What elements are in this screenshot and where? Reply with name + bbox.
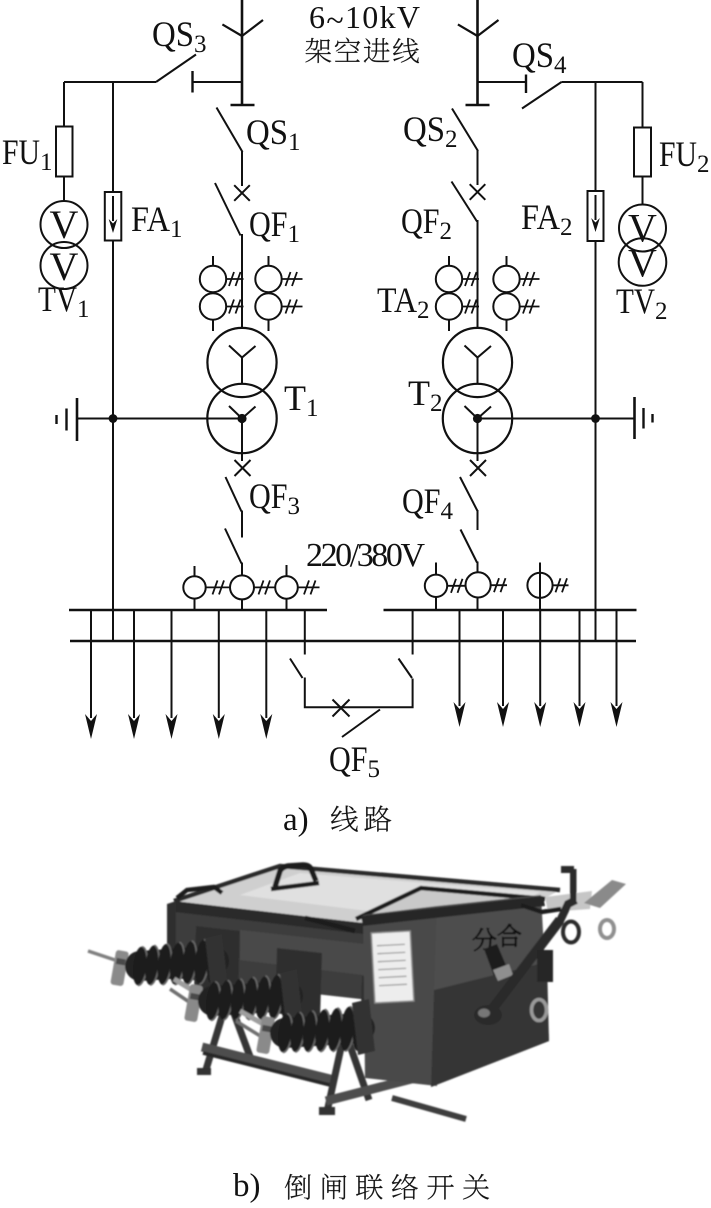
current transformers: LV side left group bbox=[183, 565, 319, 610]
busbar: 380V bus section II bbox=[384, 609, 637, 612]
node: T1 neutral junction dot bbox=[237, 414, 246, 423]
photo: control box bbox=[356, 888, 545, 928]
surge arrester FA2 bbox=[595, 82, 597, 641]
ground (right) bbox=[633, 397, 636, 439]
wire: QS2 to QF2 bbox=[477, 150, 479, 185]
svg-text:b): b) bbox=[233, 1168, 261, 1204]
svg-text:6~10kV: 6~10kV bbox=[309, 0, 420, 38]
current transformers: LV side right group bbox=[425, 563, 569, 611]
wire: T1 neutral to ground bbox=[77, 418, 242, 420]
surge arrester FA1 bbox=[112, 82, 114, 641]
photo: insulator bushings bbox=[88, 934, 375, 1055]
feeder arrow L5 bbox=[265, 610, 267, 718]
feeder arrow R2 bbox=[502, 610, 504, 706]
svg-text:V: V bbox=[50, 202, 79, 247]
feeder arrow R4 bbox=[579, 610, 581, 706]
label 架空进线 bbox=[305, 38, 331, 63]
disconnector QS2 bbox=[466, 104, 490, 106]
ground (left) bbox=[76, 398, 79, 441]
disconnector QS4 bbox=[478, 81, 527, 83]
transformer T2 (wye-wye) bbox=[443, 328, 512, 397]
photo: 合/分 indicator bbox=[473, 928, 496, 951]
photo: crank handle bbox=[490, 920, 560, 1012]
voltage transformer TV1 bbox=[41, 201, 88, 248]
tie breaker QF5 bbox=[290, 610, 413, 737]
svg-text:a): a) bbox=[283, 802, 309, 838]
feeder arrow L2 bbox=[133, 610, 135, 718]
feeder arrow L4 bbox=[218, 610, 220, 718]
node: T2 neutral junction dot bbox=[473, 414, 482, 423]
circuit breaker QF1 bbox=[234, 185, 250, 201]
wire: left incoming overhead line bbox=[241, 0, 244, 105]
wire: QF1 to transformer T1 bbox=[241, 234, 243, 329]
circuit breaker QF3 bbox=[235, 460, 251, 476]
feeder arrow L3 bbox=[171, 610, 173, 718]
feeder arrow R3 bbox=[539, 610, 541, 706]
feeder arrow R3 (through LV CT) bbox=[539, 563, 541, 611]
circuit breaker QF2 bbox=[470, 184, 486, 200]
node: junction dot on FA1 line bbox=[109, 414, 118, 423]
feeder arrow L1 bbox=[90, 610, 92, 718]
wire: right incoming overhead line bbox=[476, 0, 479, 105]
wire: QF2 to transformer T2 bbox=[477, 220, 479, 329]
photo: lid handles bbox=[275, 865, 316, 887]
svg-text:220/380V: 220/380V bbox=[306, 537, 425, 574]
node: right line arrow chevron bbox=[458, 20, 499, 36]
transformer T1 (wye-wye) bbox=[207, 328, 276, 397]
svg-text:V: V bbox=[628, 241, 657, 286]
node: left line arrow chevron bbox=[222, 20, 263, 36]
current transformers TA1 (two per-phase CT pairs) bbox=[200, 256, 303, 331]
disconnector QS3 bbox=[64, 81, 156, 83]
disconnector QS1 bbox=[231, 104, 255, 106]
busbar: 380V bus section I bbox=[69, 609, 327, 612]
current transformers TA2 bbox=[436, 256, 540, 331]
wire: T2 neutral to ground bbox=[478, 418, 635, 420]
fuse FU1 bbox=[63, 82, 65, 202]
wire: QS1 to QF1 bbox=[241, 151, 243, 186]
busbar: neutral bus (full width) bbox=[70, 640, 636, 643]
node: junction dot on FA2 line bbox=[591, 414, 600, 423]
wire: T1 secondary stem bbox=[241, 419, 243, 462]
circuit breaker QF4 bbox=[470, 460, 486, 476]
fuse FU2 bbox=[642, 82, 644, 204]
feeder arrow R1 bbox=[459, 610, 461, 706]
voltage transformer TV2 bbox=[619, 205, 666, 252]
feeder arrow R5 bbox=[616, 610, 618, 706]
wire: T2 secondary stem bbox=[477, 419, 479, 462]
